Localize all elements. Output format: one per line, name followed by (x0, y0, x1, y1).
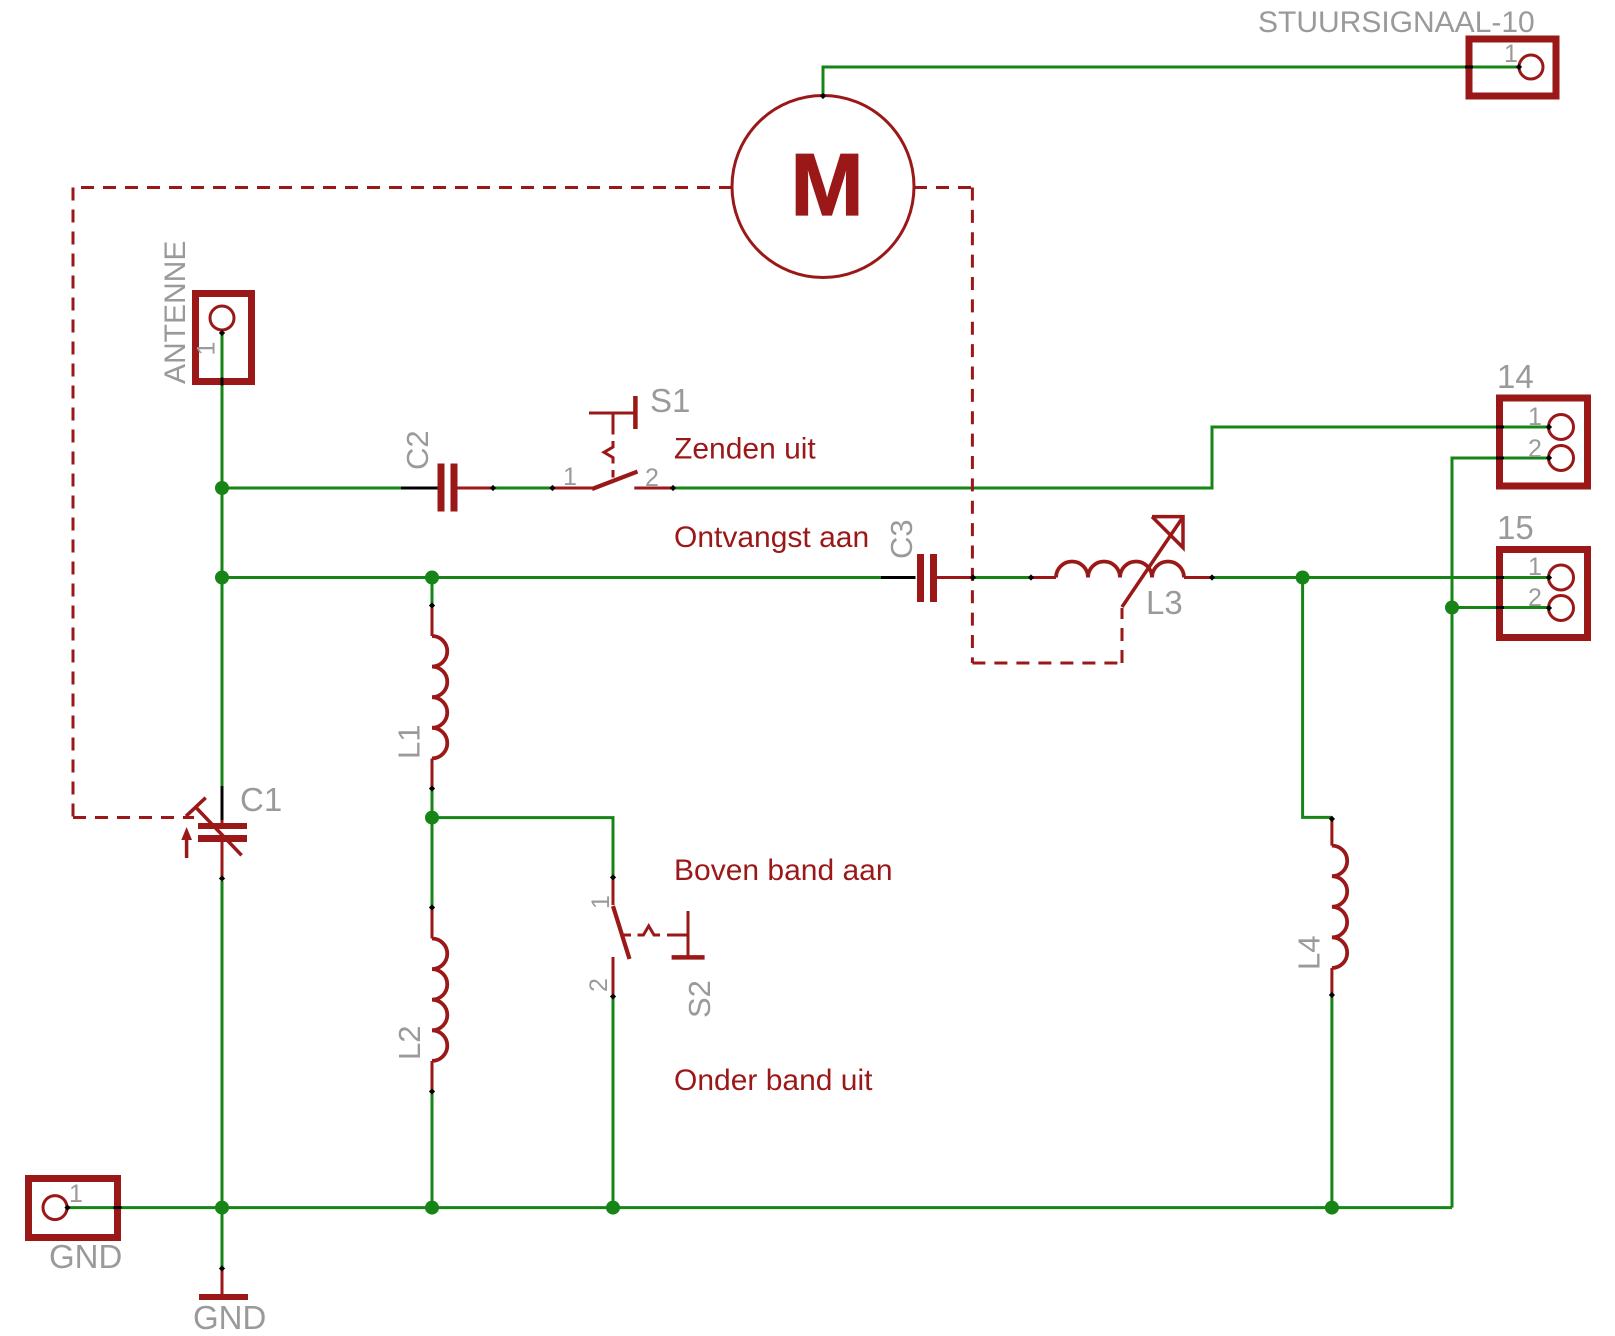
svg-text:GND: GND (193, 1299, 266, 1336)
svg-text:2: 2 (645, 464, 659, 492)
svg-text:1: 1 (587, 895, 615, 909)
svg-text:Zenden uit: Zenden uit (674, 433, 816, 466)
svg-text:S1: S1 (650, 382, 690, 419)
svg-text:2: 2 (1528, 584, 1542, 612)
svg-text:2: 2 (585, 978, 613, 992)
svg-text:Onder band uit: Onder band uit (674, 1064, 873, 1097)
svg-text:1: 1 (193, 342, 221, 356)
svg-text:L3: L3 (1146, 584, 1183, 621)
svg-text:ANTENNE: ANTENNE (159, 241, 192, 384)
svg-text:1: 1 (1528, 553, 1542, 581)
svg-text:L4: L4 (1292, 936, 1327, 970)
svg-text:M: M (790, 135, 863, 234)
svg-text:2: 2 (1528, 435, 1542, 463)
svg-text:C1: C1 (240, 781, 282, 818)
svg-text:L2: L2 (392, 1026, 427, 1060)
svg-text:S2: S2 (682, 980, 717, 1018)
svg-text:1: 1 (69, 1180, 83, 1208)
svg-text:Ontvangst aan: Ontvangst aan (674, 521, 869, 554)
svg-text:1: 1 (1528, 403, 1542, 431)
svg-text:15: 15 (1497, 509, 1534, 546)
svg-text:1: 1 (1504, 40, 1518, 68)
svg-text:C2: C2 (400, 430, 435, 470)
svg-text:GND: GND (49, 1238, 122, 1275)
svg-text:1: 1 (563, 463, 577, 491)
svg-text:Boven band aan: Boven band aan (674, 854, 893, 887)
svg-text:C3: C3 (884, 519, 919, 559)
svg-text:STUURSIGNAAL-10: STUURSIGNAAL-10 (1258, 6, 1535, 39)
svg-text:14: 14 (1497, 358, 1534, 395)
svg-text:L1: L1 (392, 725, 427, 759)
